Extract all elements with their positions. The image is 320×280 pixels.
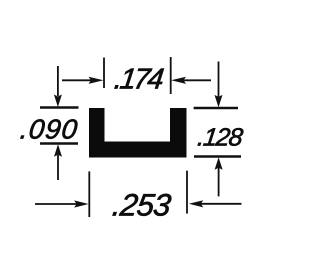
svg-text:.174: .174 [113,64,166,96]
dim .174: left dimension line [62,79,93,81]
dim .253: right arrowhead (points left) [189,200,204,207]
dim .128: bottom arrowhead [215,157,223,170]
dim .128: top arrowhead [215,95,223,108]
dim .128: top tick [194,107,238,109]
dim .090: bottom arrowhead [54,144,62,157]
dim .253: left arrowhead (points right) [74,200,89,207]
dim .090: top arrowhead [54,95,62,108]
dim .090: top tick [40,106,79,108]
dim .090: bottom tick [40,142,78,144]
dim .253: left dimension line [35,203,78,205]
svg-text:.090: .090 [19,114,80,145]
svg-text:.128: .128 [196,124,245,152]
svg-text:.253: .253 [111,188,174,223]
dim .174: right arrowhead (points left) [171,77,186,84]
U-channel cross-section (solid black profile) [90,109,187,158]
dim .090: top arrow shaft (points down) [57,66,59,96]
dim .090: bottom arrow shaft (points up) [57,155,59,180]
dim .253: right extension line (outer-right edge) [186,171,188,214]
dim .174: right extension line (inner-right edge) [170,57,172,94]
dim .253: right dimension line [199,203,242,205]
dim .128: top arrow shaft (points down) [218,62,220,98]
dim .128: bottom arrow shaft (points up) [218,167,220,196]
dim .128: bottom tick [194,155,241,157]
dim .253: left extension line (outer-left edge) [88,171,90,217]
dim .174: left extension line (inner-left edge) [103,58,105,89]
dim .174: left arrowhead (points right) [89,77,104,84]
dim .174: right dimension line [183,79,211,81]
